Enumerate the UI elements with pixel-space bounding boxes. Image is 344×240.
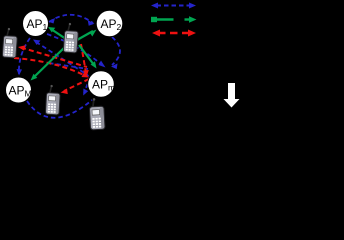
wire: blue dashed curved AP1 to APm top [47,34,102,65]
node arrowhead green at AP2 end [90,30,97,37]
wire: green solid phone2 to AP2 [77,31,93,40]
wire: blue dashed arc APM to APm (bottom sag) [27,100,92,118]
wire: blue dashed shallow line toward APm [49,63,88,69]
node arrowhead blue right of AP1-AP2 arc [88,20,95,26]
node arrowhead blue bottom of AP1-APM arc [17,69,23,76]
wire: red dashed phone1 to APm upper [21,48,87,68]
wire: blue dashed short drop APm to phone A [84,78,90,93]
wire: red dashed APm to phone A [64,79,89,91]
white block arrow down [224,83,240,108]
wire: blue dashed arc AP1 to APM (left side) [19,38,30,74]
node arrowhead blue at bottom of short drop [83,89,88,96]
node arrowhead blue at APm end of diagonal [82,71,90,77]
phone 4 (bottom, below APm) [89,98,105,130]
node arrowhead blue at AP1 end of diagonal [33,40,41,46]
node arrowhead red pointing down at APm top-left [83,70,89,77]
wire: blue dashed straight AP1 to APm [36,42,86,74]
node arrowhead blue bottom of AP2-APm arc [111,64,118,70]
phone 2 (center) [63,23,79,53]
wire: blue dashed arc AP1 to AP2 [49,15,93,23]
phone 3 (bottom left) [45,85,60,115]
node AP1 circle [23,11,49,37]
node arrowhead red at phone A end [61,89,68,95]
legend blue dashed double arrow [151,3,196,9]
wire: red dashed phone1 bottom to APm left [14,58,86,76]
wire: green solid phone2 to APm top [79,45,94,65]
node arrowhead green at APM end [31,74,38,81]
node arrowhead green at AP1 end [48,27,55,32]
wire: blue dashed arc AP2 to APm (right side) [112,37,120,65]
node arrowhead blue at APm-top end of curved line [99,61,106,68]
wire: red dashed phone2 down to APm top-left [81,44,86,73]
node AP2 circle [96,10,123,37]
node arrowhead red at APm end of lower line [82,72,90,77]
node arrowhead green at APm-top end [91,61,97,68]
node APm circle [88,71,115,98]
node arrowhead blue left of AP1-AP2 arc [48,18,55,24]
legend green solid arrow [151,16,197,22]
wire: green solid phone2 to APM [33,45,67,78]
phone 1 (left) [2,28,18,58]
legend red dashed double arrow [152,30,196,37]
wire: green solid phone2 to AP1 [51,29,69,41]
node arrowhead red at phone1 end [18,45,26,50]
node APM circle [6,77,32,103]
